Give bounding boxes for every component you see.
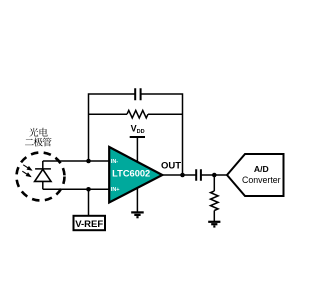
svg-text:IN-: IN- [111,159,119,165]
svg-text:V-REF: V-REF [75,219,103,230]
svg-text:LTC6002: LTC6002 [112,168,150,178]
svg-text:IN+: IN+ [111,187,120,193]
svg-text:Converter: Converter [242,175,281,185]
svg-text:A/D: A/D [254,164,269,174]
svg-text:OUT: OUT [161,160,181,171]
